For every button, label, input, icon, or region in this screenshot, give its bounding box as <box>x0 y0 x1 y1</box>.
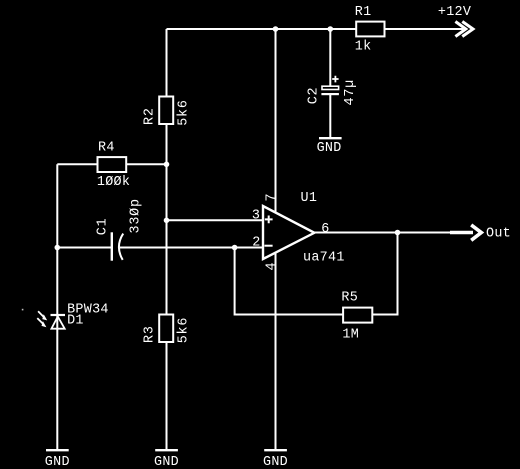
node junction top pin7 <box>273 26 279 32</box>
svg-text:5k6: 5k6 <box>177 99 192 126</box>
wire C1 left <box>57 247 111 249</box>
svg-text:D1: D1 <box>67 313 84 328</box>
svg-text:7: 7 <box>265 193 280 202</box>
node Out arrow <box>450 225 511 242</box>
wire op-amp output <box>314 232 451 234</box>
wire pin3 input <box>167 219 264 221</box>
svg-text:1k: 1k <box>355 39 372 54</box>
wire top supply rail <box>167 28 464 30</box>
power +12V supply arrow <box>438 5 473 37</box>
wire R2 bottom to R3 top <box>166 124 168 315</box>
wire op-amp V+ pin7 <box>275 29 277 212</box>
svg-text:6: 6 <box>321 222 329 237</box>
op-amp U1 <box>263 191 345 266</box>
svg-text:GND: GND <box>317 141 342 156</box>
resistor R1 <box>355 5 385 55</box>
node junction R4/R2 <box>164 162 170 168</box>
photodiode D1 <box>37 303 108 329</box>
svg-text:47µ: 47µ <box>343 79 358 106</box>
capacitor C1 <box>95 198 143 261</box>
resistor R5 <box>341 290 372 342</box>
wire op-amp V- pin4 <box>275 252 277 450</box>
svg-text:C1: C1 <box>95 218 110 236</box>
svg-text:ua741: ua741 <box>303 251 345 266</box>
wire left branch vertical <box>56 164 58 449</box>
svg-text:R1: R1 <box>355 5 372 20</box>
wire R4 left <box>57 163 97 165</box>
ground symbol left (D1) <box>45 450 70 469</box>
wire R3 bottom to GND <box>166 342 168 449</box>
node junction output <box>395 230 401 236</box>
svg-text:R2: R2 <box>143 107 158 125</box>
svg-text:C2: C2 <box>306 87 321 105</box>
resistor R2 <box>143 97 192 126</box>
resistor R4 <box>97 141 130 190</box>
svg-text:R3: R3 <box>143 325 158 343</box>
svg-text:4: 4 <box>265 262 280 271</box>
svg-text:1ØØk: 1ØØk <box>97 175 130 190</box>
wire R5 right to output <box>372 233 397 315</box>
ground symbol right (U1 pin4) <box>263 450 288 469</box>
capacitor C2 <box>306 76 357 106</box>
node junction C1 left <box>55 245 61 251</box>
wire feedback down from pin2 node <box>235 248 344 315</box>
resistor R3 <box>143 315 192 344</box>
svg-text:GND: GND <box>263 455 288 469</box>
wire C2 to GND <box>329 95 331 137</box>
svg-text:33Øp: 33Øp <box>129 198 144 233</box>
wire C2 branch upper <box>329 29 331 86</box>
svg-text:5k6: 5k6 <box>177 317 192 344</box>
wire R4 right <box>126 163 166 165</box>
svg-text:1M: 1M <box>342 328 359 343</box>
svg-text:R5: R5 <box>341 290 358 305</box>
node junction top C2 <box>328 26 334 32</box>
wire C1 right to pin2 <box>120 247 263 249</box>
node junction pin2/feedback <box>232 245 238 251</box>
svg-text:2: 2 <box>252 236 260 251</box>
ground symbol for C2 <box>317 138 342 156</box>
node junction pin3 <box>164 218 170 224</box>
svg-text:R4: R4 <box>98 141 115 156</box>
stray dot artifact <box>22 309 24 311</box>
svg-text:GND: GND <box>154 455 179 469</box>
wire R2 branch upper <box>166 29 168 97</box>
svg-text:+12V: +12V <box>438 5 471 20</box>
ground symbol middle (R3) <box>154 450 179 469</box>
svg-text:U1: U1 <box>301 191 318 206</box>
svg-text:Out: Out <box>486 227 511 242</box>
svg-text:GND: GND <box>45 455 70 469</box>
svg-text:3: 3 <box>252 209 260 224</box>
